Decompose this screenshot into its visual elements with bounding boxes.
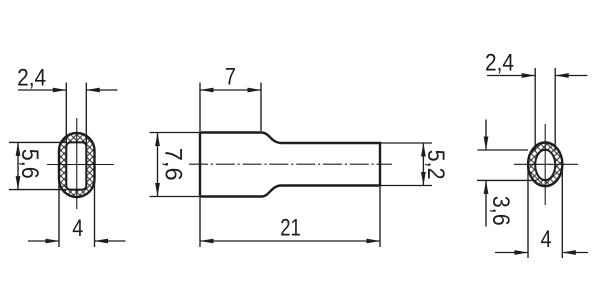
dimension line 7 xyxy=(200,89,261,91)
extension lines for dimension 5,2 xyxy=(381,142,432,144)
dimension 3,6 leader arrows (outside) xyxy=(485,120,487,151)
extension lines for dimension 2,4 (right view) xyxy=(534,68,536,151)
svg-text:2,4: 2,4 xyxy=(485,49,514,76)
left view inner hole (2.4 x 5.6) xyxy=(66,142,86,189)
right view hole (2.4 x 3.6) xyxy=(535,150,555,180)
extension lines for dimension 3,6 xyxy=(478,149,529,151)
svg-text:7: 7 xyxy=(225,63,236,90)
extension lines for dimension 4 (right view) xyxy=(527,164,529,258)
extension lines for dimension 5,6 xyxy=(9,141,66,143)
left view outer stadium profile xyxy=(59,133,95,197)
dimension line 21 xyxy=(200,240,380,242)
right view outer oval profile xyxy=(528,143,562,187)
svg-text:3,6: 3,6 xyxy=(487,196,514,226)
dimension line 2,4 (left view, outside arrows) xyxy=(18,89,66,91)
extension lines for dimension 21 xyxy=(199,198,201,247)
svg-text:4: 4 xyxy=(541,226,552,253)
middle view centerline (dash-dot) xyxy=(189,163,392,165)
dimension line 2,4 (right view, outside arrows) xyxy=(487,75,535,77)
left view hatching ring xyxy=(59,133,95,197)
svg-text:4: 4 xyxy=(72,215,83,242)
dimension line 7,6 xyxy=(157,133,159,197)
svg-text:7,6: 7,6 xyxy=(160,148,187,181)
dimension line 4 (left view, outside arrows) xyxy=(28,240,59,242)
dimension line 5,6 xyxy=(17,142,19,189)
extension lines for dimension 2,4 (left view) xyxy=(65,83,67,144)
svg-text:21: 21 xyxy=(280,215,301,242)
left view horizontal centerline xyxy=(47,164,114,166)
left view vertical centerline xyxy=(76,118,78,209)
extension lines for dimension 7 xyxy=(199,83,201,132)
middle view body outline xyxy=(200,133,380,197)
extension lines for dimension 4 (left view) xyxy=(58,164,60,247)
right view vertical centerline xyxy=(544,124,546,205)
extension lines for dimension 7,6 xyxy=(150,132,200,134)
dimension line 5,2 xyxy=(422,143,424,186)
svg-text:5,6: 5,6 xyxy=(16,149,43,179)
svg-text:2,4: 2,4 xyxy=(17,65,46,92)
svg-text:5,2: 5,2 xyxy=(422,150,449,180)
dimension line 4 (right view, outside arrows) xyxy=(495,252,528,254)
right view hatching ring xyxy=(528,143,562,187)
right view horizontal centerline xyxy=(514,163,578,165)
